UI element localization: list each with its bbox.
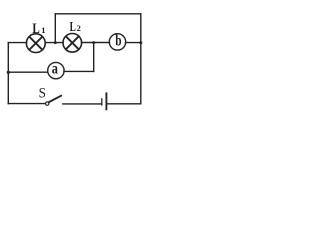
battery positive plate — [105, 92, 107, 110]
wire meter a to corner — [64, 70, 94, 72]
ammeter a — [48, 60, 64, 78]
wire main left to L1 — [8, 42, 26, 44]
wire riser node A to top — [54, 14, 56, 43]
wire right vertical — [140, 14, 142, 104]
wire corner riser to node B — [93, 43, 95, 72]
lamp L2 — [63, 34, 82, 53]
wire top bypass — [55, 13, 141, 15]
svg-text:a: a — [52, 60, 58, 77]
svg-text:L2: L2 — [70, 20, 81, 35]
wire left vertical — [7, 43, 9, 104]
wire left vertical to meter a — [8, 71, 48, 73]
meter b — [109, 33, 125, 50]
wire between L1 and L2 — [45, 42, 63, 44]
wire switch to battery — [63, 103, 101, 105]
battery negative plate — [101, 98, 103, 105]
svg-text:S: S — [39, 86, 46, 102]
wire battery to right vertical — [107, 103, 141, 105]
svg-text:L1: L1 — [32, 21, 45, 37]
switch S blade — [49, 96, 61, 102]
node D junction dot — [139, 41, 142, 44]
wire bottom left to switch — [8, 103, 45, 105]
node C junction dot — [7, 71, 10, 74]
node B junction dot — [92, 41, 95, 44]
node A junction dot — [54, 41, 57, 44]
wire L2 to meter b — [82, 42, 110, 44]
switch S pivot — [46, 102, 49, 105]
svg-text:b: b — [115, 33, 121, 50]
wire meter b to right vertical — [125, 42, 140, 44]
lamp L1 — [26, 34, 45, 53]
